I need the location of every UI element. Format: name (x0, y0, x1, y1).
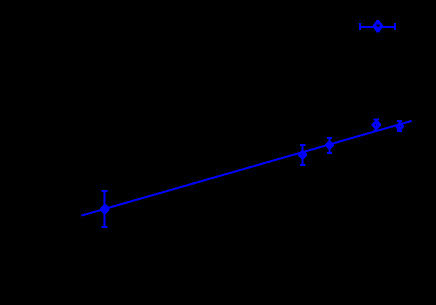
point P5 top cap (397, 120, 402, 122)
point P4 top cap (374, 119, 379, 121)
point P3 top cap (327, 137, 332, 139)
legend sample left cap (359, 23, 361, 30)
point P1 top cap (102, 190, 108, 192)
point P2 diamond (298, 150, 307, 159)
point P3 y error bar (328, 138, 330, 153)
point P5 bottom cap (397, 130, 402, 132)
point P1 bottom cap (102, 226, 108, 228)
point P4 bottom cap (374, 130, 379, 132)
legend sample line (360, 26, 396, 28)
legend sample diamond marker (373, 20, 383, 33)
legend sample right cap (394, 23, 396, 30)
point P1 diamond (100, 204, 110, 214)
fit line (81, 121, 411, 216)
point P2 y error bar (302, 145, 304, 165)
point P3 diamond (325, 141, 334, 150)
point P4 diamond (372, 120, 381, 130)
point P1 y error bar (104, 191, 106, 227)
point P2 top cap (300, 144, 305, 146)
point P2 bottom cap (300, 164, 305, 166)
legend sample diamond hollow center (377, 25, 380, 27)
point P4 y error bar (375, 120, 377, 131)
point P3 bottom cap (327, 152, 332, 154)
point P5 y error bar (399, 121, 401, 131)
point P5 diamond (396, 122, 404, 131)
